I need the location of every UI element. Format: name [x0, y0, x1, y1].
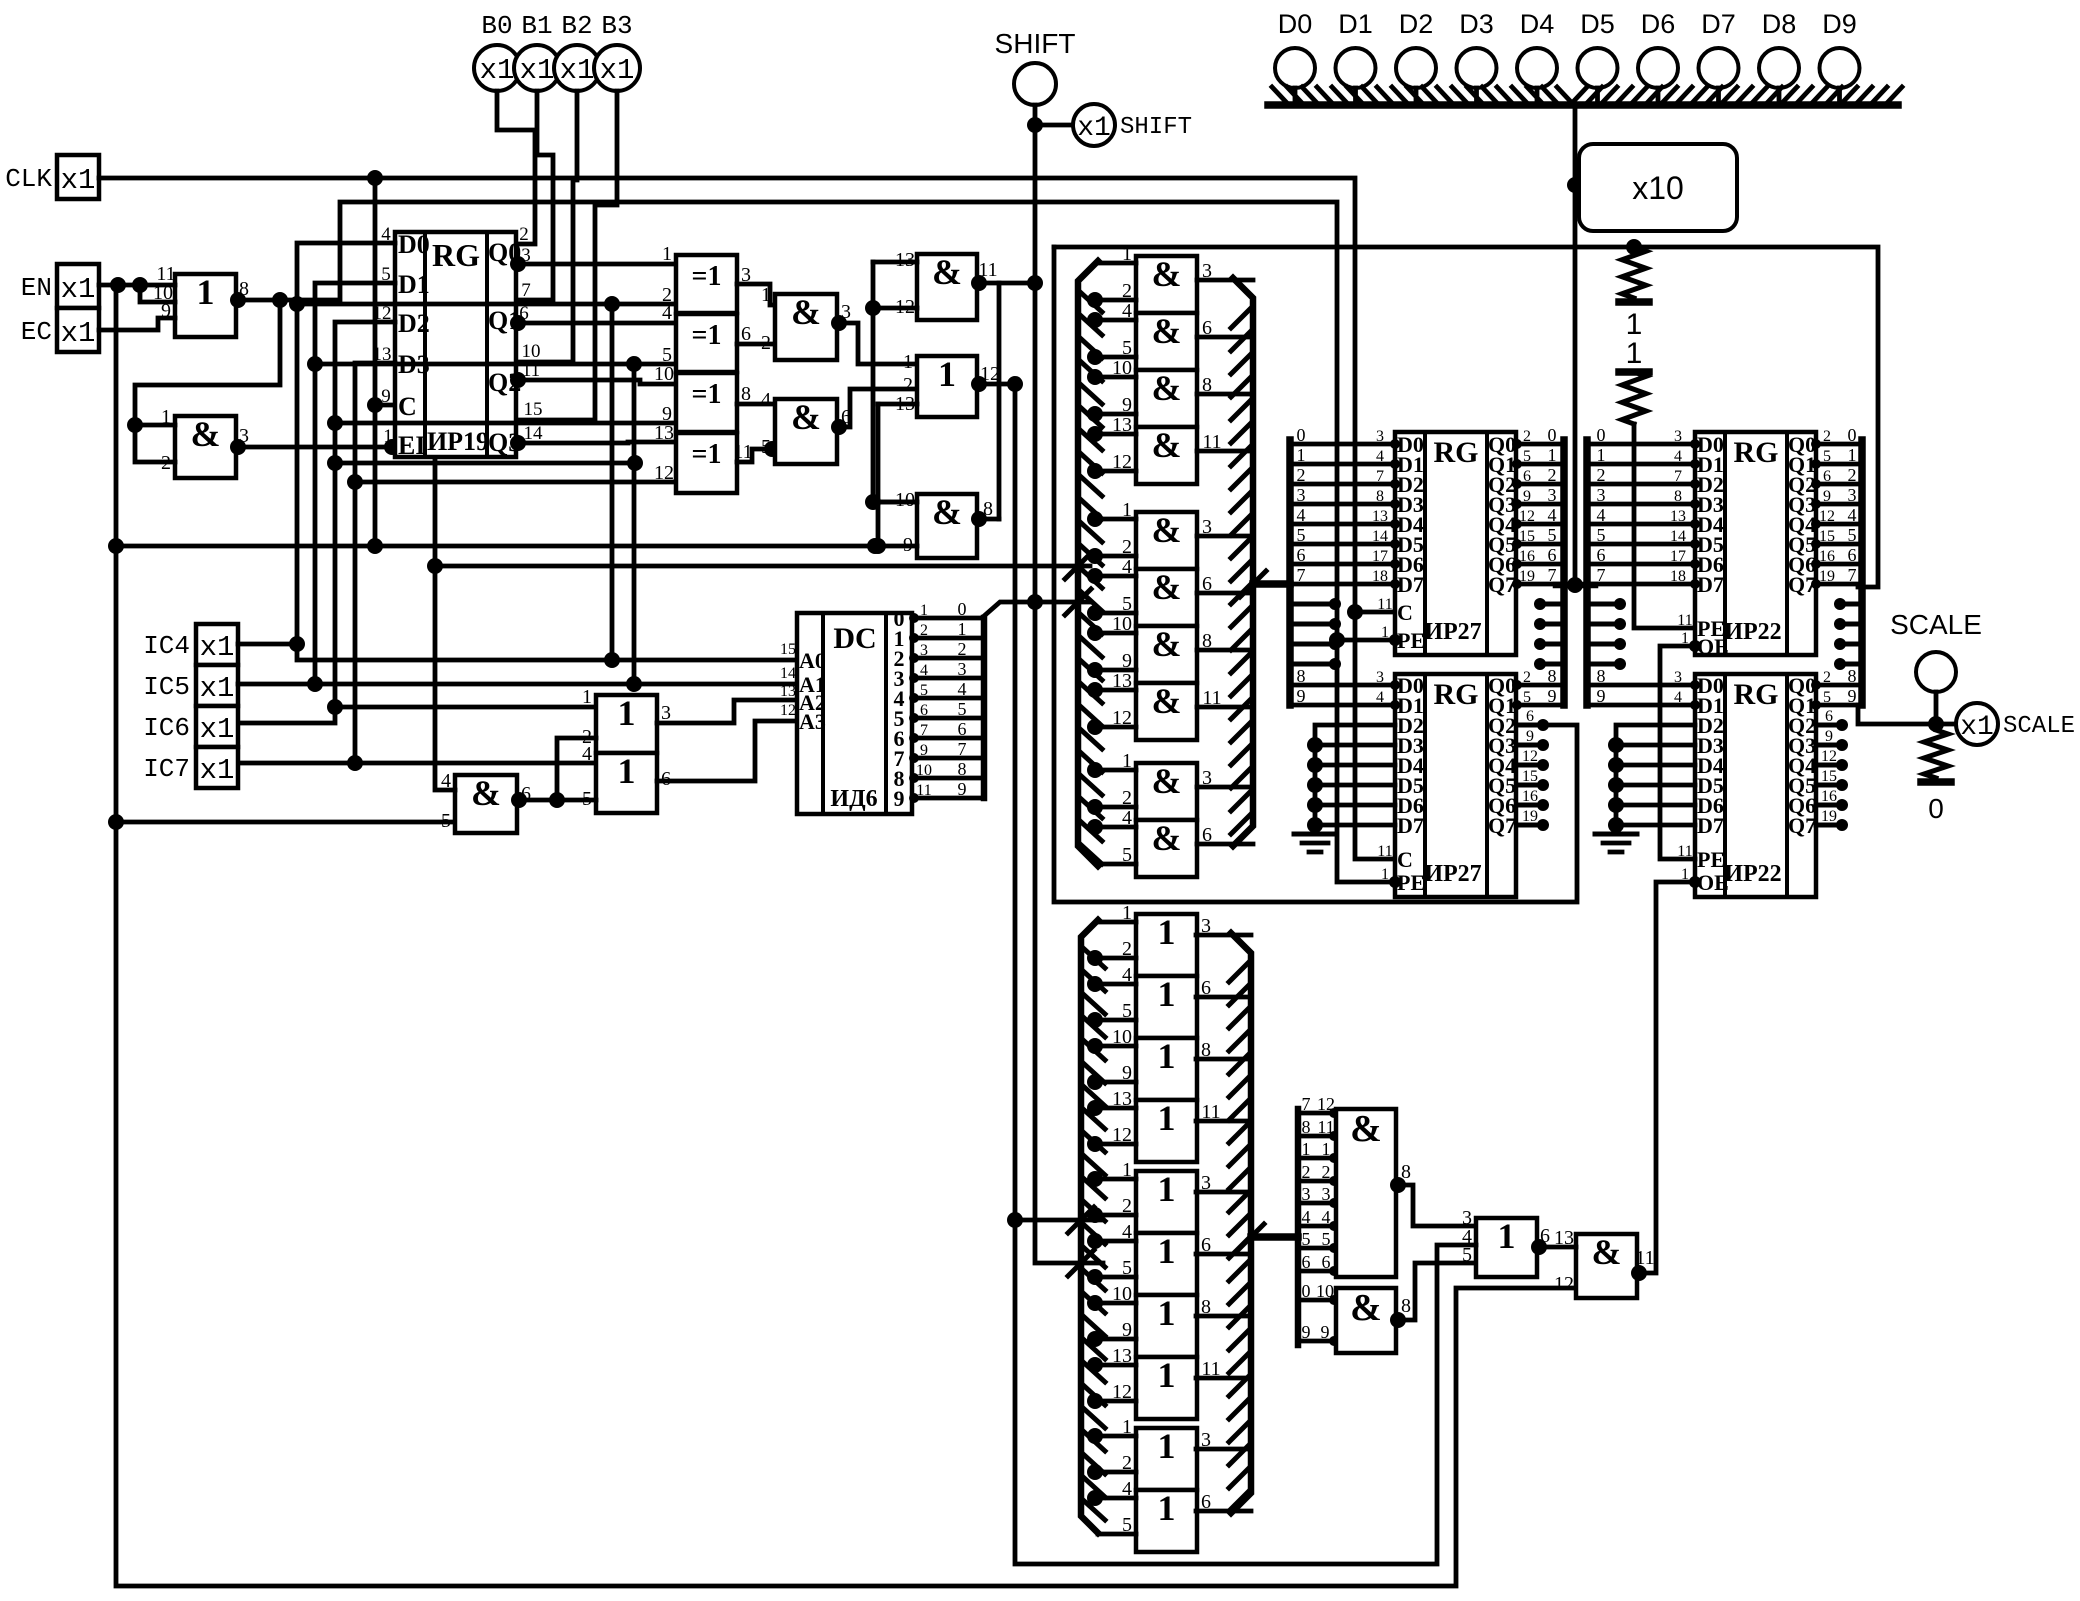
svg-text:1: 1 [582, 686, 592, 708]
wire IR22-D net 7 [1587, 582, 1695, 587]
svg-text:4: 4 [1302, 1207, 1311, 1227]
svg-text:2: 2 [1548, 465, 1557, 485]
wire x873 top to nand1 pin13 [873, 260, 917, 265]
svg-text:5: 5 [958, 699, 967, 719]
and-gate DD6 (and column) [1136, 569, 1197, 626]
svg-text:13: 13 [1372, 508, 1388, 525]
wire IR22-D net 3 [1587, 502, 1695, 507]
wire IR22-Q net 9 [1816, 703, 1862, 708]
svg-text:1: 1 [1158, 1426, 1176, 1466]
terminal IC7 [196, 747, 238, 788]
wire D1 stub [1353, 88, 1358, 101]
wire bit2 row to xor3 pin9 [335, 421, 676, 426]
wire D16 out8 to or-final pin5 [1396, 1263, 1476, 1320]
svg-text:SCALE: SCALE [1890, 609, 1982, 640]
wire and-column gate7 input 1 [1093, 631, 1136, 636]
svg-text:2: 2 [761, 332, 771, 354]
svg-text:5: 5 [1823, 689, 1831, 706]
stub IR22-D 3 [1587, 662, 1620, 667]
wire upper OE chain [1660, 646, 1695, 859]
wire or-column gate4 output [1196, 1119, 1251, 1124]
wire IR22-Q net 3 [1816, 502, 1862, 507]
wire or-column gate3 input 1 [1093, 1044, 1136, 1049]
wire IR22-Q net 1 [1816, 462, 1862, 467]
wire B3 to Q3 pin15 [516, 91, 617, 420]
wire xor1 out3 to and-A pin1 [737, 284, 775, 305]
wire and-column gate2 input 1 [1093, 318, 1136, 323]
wire vertical x999 nand2 out8 up [997, 283, 1002, 519]
svg-text:8: 8 [1597, 666, 1606, 686]
wire B2 to Q2 pin10 [516, 91, 577, 362]
svg-text:5: 5 [1297, 525, 1306, 545]
wire net bit1: D1 - xor2 pin5 - IC5 - DC A1 [315, 283, 797, 684]
svg-text:x10: x10 [1632, 170, 1684, 206]
svg-text:4: 4 [1376, 689, 1384, 706]
wire and-column gate4 output [1197, 449, 1253, 454]
and-gate D18 [1576, 1234, 1637, 1298]
svg-text:x1: x1 [200, 754, 235, 787]
svg-text:9: 9 [1302, 1322, 1311, 1342]
svg-text:3: 3 [1322, 1184, 1331, 1204]
svg-text:4: 4 [582, 743, 592, 765]
terminal IC5 [196, 665, 238, 706]
wire R2 to IR22 PE [1634, 424, 1695, 628]
svg-text:7: 7 [521, 280, 531, 301]
svg-text:&: & [791, 397, 821, 437]
wire D4 stub [1535, 88, 1540, 101]
bus crossing mark at 1078,602 [1065, 589, 1091, 615]
svg-text:x1: x1 [61, 273, 96, 306]
wire x1054 vertical down to L1 [1054, 247, 1577, 902]
wire net bit2: D2 - xor3 pin9 - IC6 - OR pin1 [238, 322, 395, 723]
wire IR22-D net 6 [1587, 562, 1695, 567]
wire IR27-D net 4 [1290, 522, 1395, 527]
svg-text:ИД6: ИД6 [830, 786, 877, 812]
svg-text:6: 6 [1322, 1252, 1331, 1272]
wire y247 net [1054, 247, 1878, 587]
nand D6.1 [917, 254, 977, 320]
xor-gate D4.2 [676, 314, 737, 372]
wire DC out 5 [912, 716, 984, 721]
wire IC4 tap [238, 642, 297, 647]
terminal B1 [514, 45, 560, 91]
svg-text:8: 8 [958, 759, 967, 779]
wire IR27-Q net 3 [1517, 502, 1564, 507]
svg-text:1: 1 [903, 351, 913, 373]
wire IR27-Q net 8 [1517, 683, 1564, 688]
svg-text:&: & [1152, 818, 1182, 858]
svg-text:1: 1 [1381, 866, 1389, 883]
svg-text:5: 5 [920, 682, 928, 699]
wire branch down to AND pin1 [135, 300, 280, 462]
wire and-column gate6 input 1 [1093, 574, 1136, 579]
svg-text:=1: =1 [692, 320, 722, 351]
svg-text:1: 1 [1297, 445, 1306, 465]
svg-text:1: 1 [1626, 337, 1643, 370]
svg-text:1: 1 [938, 354, 956, 394]
wire bit1 row to xor2 pin5 [315, 362, 676, 367]
svg-text:10: 10 [654, 363, 674, 385]
wire IR27-Q net 2 [1517, 482, 1564, 487]
svg-text:16: 16 [1819, 548, 1835, 565]
svg-text:1: 1 [761, 284, 771, 306]
wire and D15 input net 7 pin 12 [1298, 1111, 1336, 1116]
wire IR27-Q net 0 [1517, 442, 1564, 447]
wire or-column gate8 input 2 [1093, 1399, 1136, 1404]
terminal B0 [474, 45, 520, 91]
stub IR22 lower Q3 [1816, 743, 1844, 748]
wire net y546 from left rail to nand2 pin9 [116, 544, 917, 549]
wire IR27-Q net 9 [1517, 703, 1564, 708]
svg-text:4: 4 [1548, 505, 1557, 525]
wire or-column gate2 input 2 [1093, 1018, 1136, 1023]
or column left bus rail [1081, 920, 1098, 1533]
svg-text:&: & [1152, 510, 1182, 550]
wire and-column gate1 output [1197, 278, 1253, 283]
wire EN to OR pin11 [99, 283, 175, 288]
svg-text:8: 8 [1376, 488, 1384, 505]
wire bit3 row to xor4 pin12 [355, 480, 676, 485]
svg-text:15: 15 [1522, 768, 1538, 785]
svg-text:SHIFT: SHIFT [995, 28, 1076, 59]
svg-text:11: 11 [1377, 596, 1392, 613]
DC ladder rail [981, 618, 988, 798]
data bus bar [1268, 101, 1898, 109]
wire branch to or4 pin5 [557, 798, 596, 803]
wire or-bus bottom rung [1098, 1532, 1136, 1537]
stub IR27-Q 3 [1540, 662, 1564, 667]
wire IR27-Q net 6 [1517, 562, 1564, 567]
wire Q0 pin3 to xor1 pin1 [516, 262, 676, 267]
wire RG19 C pin from CLK drop [375, 403, 395, 408]
svg-text:1: 1 [1322, 1139, 1331, 1159]
stub IR22-Q 0 [1840, 602, 1862, 607]
or-gate DE8 (or column) [1136, 1357, 1197, 1419]
wire lower IR27 D7 tie [1307, 817, 1323, 833]
wire D5 stub [1595, 88, 1600, 101]
svg-text:&: & [471, 773, 501, 813]
svg-text:1: 1 [662, 243, 672, 265]
svg-text:1: 1 [920, 602, 928, 619]
svg-text:D9: D9 [1822, 9, 1857, 39]
svg-text:1: 1 [1158, 1293, 1176, 1333]
svg-text:SCALE: SCALE [2003, 713, 2075, 740]
svg-text:1: 1 [1158, 974, 1176, 1014]
stub IR22-Q 1 [1840, 622, 1862, 627]
wire and-column gate7 output [1197, 648, 1253, 653]
or column left hatch [1083, 948, 1105, 968]
svg-text:15: 15 [1519, 528, 1535, 545]
svg-text:1: 1 [1498, 1216, 1516, 1256]
svg-text:Q7: Q7 [1788, 813, 1816, 838]
wire and D15 input net 5 pin 5 [1298, 1246, 1336, 1251]
svg-text:PE: PE [1397, 870, 1425, 895]
and-gate DD4 (and column) [1136, 427, 1197, 484]
stub IR22 lower Q2 [1816, 723, 1844, 728]
svg-text:D0: D0 [1278, 9, 1313, 39]
stub IR22-Q 3 [1840, 662, 1862, 667]
wire IR27-D net 3 [1290, 502, 1395, 507]
svg-text:9: 9 [894, 786, 905, 811]
svg-text:14: 14 [1670, 528, 1686, 545]
svg-text:4: 4 [662, 302, 672, 324]
wire and D15 input net 1 pin 1 [1298, 1156, 1336, 1161]
svg-text:1: 1 [618, 751, 636, 791]
register D11 (upper IR27) [1395, 432, 1516, 655]
stub IR22-D 0 [1587, 602, 1620, 607]
svg-text:&: & [1152, 254, 1182, 294]
stub IR27-Q 1 [1540, 622, 1564, 627]
wire IR27-D net 6 [1290, 562, 1395, 567]
svg-text:9: 9 [1523, 488, 1531, 505]
wire AND out3 to RG EI [236, 445, 395, 450]
wire and-column gate1 input 2 [1093, 298, 1136, 303]
svg-text:3: 3 [1848, 485, 1857, 505]
svg-text:B0: B0 [481, 11, 512, 41]
svg-text:IC4: IC4 [143, 631, 190, 661]
svg-text:14: 14 [780, 665, 796, 682]
svg-text:9: 9 [1526, 728, 1534, 745]
svg-text:3: 3 [1376, 428, 1384, 445]
wire or-column gate6 input 1 [1093, 1239, 1136, 1244]
wire x873 bottom to nand2 pin10 [873, 500, 917, 505]
wire IR22-Q net 5 [1816, 542, 1862, 547]
svg-text:ИР22: ИР22 [1724, 619, 1781, 645]
wire and-column gate2 output [1197, 335, 1253, 340]
wire net bit0: D0 - xor1 pin2 - IC4 - DC A0 [297, 243, 797, 660]
svg-text:RG: RG [1434, 436, 1479, 469]
wire and-column gate5 input 1 [1093, 517, 1136, 522]
or-gate DE7 (or column) [1136, 1295, 1197, 1357]
stub IR22-D 1 [1587, 622, 1620, 627]
stub IR27 lower Q7 [1517, 823, 1545, 828]
svg-text:&: & [932, 492, 962, 532]
svg-text:5: 5 [1523, 689, 1531, 706]
or-gate D7.1 [917, 356, 977, 417]
svg-text:9: 9 [1823, 488, 1831, 505]
svg-text:&: & [1152, 681, 1182, 721]
wire D2 stub [1414, 88, 1419, 101]
bus ladder IR27-D [1286, 440, 1294, 705]
wire lower IR22 D4 tie [1608, 757, 1624, 773]
svg-text:4: 4 [1376, 448, 1384, 465]
svg-text:12: 12 [654, 462, 674, 484]
svg-text:4: 4 [920, 662, 928, 679]
svg-text:D1: D1 [1338, 9, 1373, 39]
wire bus drop at D5 [1573, 105, 1578, 585]
svg-text:1: 1 [1381, 624, 1389, 641]
wire net y822 to and3 pin5 [116, 820, 455, 825]
svg-text:ИР27: ИР27 [1424, 861, 1481, 887]
stub IR22-D 2 [1587, 642, 1620, 647]
svg-text:4: 4 [761, 389, 771, 411]
svg-text:OE: OE [1697, 634, 1729, 659]
svg-text:RG: RG [1734, 678, 1779, 711]
wire and-column gate3 input 2 [1093, 412, 1136, 417]
wire nand pin10 from x873 [872, 500, 917, 505]
wire and-column gate10 input 1 [1093, 825, 1136, 830]
svg-text:D3: D3 [1459, 9, 1494, 39]
svg-text:2: 2 [1297, 465, 1306, 485]
svg-text:6: 6 [1848, 545, 1857, 565]
svg-text:x1: x1 [1077, 113, 1111, 144]
wire net bit3: D3 - xor4 pin12 - IC7 - OR pin4 [238, 363, 395, 763]
wire or3 out3 to DC A2 [657, 700, 797, 723]
resistor R2 [1622, 372, 1646, 424]
svg-text:Q7: Q7 [1488, 813, 1516, 838]
wire or-column gate9 input 2 [1093, 1470, 1136, 1475]
svg-text:x1: x1 [61, 317, 96, 350]
svg-text:A0: A0 [799, 648, 826, 673]
wire D15 out8 to or-final pin3 [1396, 1185, 1476, 1226]
svg-text:B3: B3 [601, 11, 632, 41]
or-gate DE6 (or column) [1136, 1233, 1197, 1295]
svg-text:2: 2 [1823, 669, 1831, 686]
svg-text:7: 7 [920, 722, 928, 739]
svg-text:RG: RG [1434, 678, 1479, 711]
wire left border vertical + bottom border [116, 285, 1576, 1586]
or-gate DE2 (or column) [1136, 976, 1197, 1038]
wire IR22-D net 0 [1587, 442, 1695, 447]
stub IR27 lower Q2 [1517, 723, 1545, 728]
wire EN branch to OR pin10 [140, 285, 175, 302]
wire or-mid out12 to x1015 net [977, 382, 1015, 387]
svg-text:16: 16 [1821, 788, 1837, 805]
wire net drop x612 to DC A0 row [610, 304, 615, 660]
register D14 (lower IR22) [1695, 674, 1816, 897]
svg-text:0: 0 [1302, 1281, 1311, 1301]
svg-text:12: 12 [1554, 1273, 1574, 1295]
svg-text:2: 2 [920, 622, 928, 639]
and-gate DD8 (and column) [1136, 683, 1197, 740]
svg-text:4: 4 [1322, 1207, 1331, 1227]
svg-text:1: 1 [1158, 912, 1176, 952]
left bus hatch [1080, 292, 1102, 312]
svg-text:6: 6 [1825, 708, 1833, 725]
svg-text:1: 1 [197, 272, 215, 312]
wire IR27-Q net 4 [1517, 522, 1564, 527]
terminal B3 [594, 45, 640, 91]
svg-text:5: 5 [761, 436, 771, 458]
wire or-column gate5 input 1 [1093, 1177, 1136, 1182]
wire and-column gate9 input 2 [1093, 805, 1136, 810]
svg-text:19: 19 [1819, 568, 1835, 585]
bus crossing mark at 1081,1220 [1068, 1207, 1094, 1233]
right bus hatch [1231, 308, 1251, 328]
wire IR27-D net 1 [1290, 462, 1395, 467]
wire IR27-Q net 7 [1517, 582, 1564, 587]
svg-text:2: 2 [1322, 1162, 1331, 1182]
stub IR27 lower Q4 [1517, 763, 1545, 768]
wire or-column gate8 input 1 [1093, 1363, 1136, 1368]
svg-text:8: 8 [1848, 666, 1857, 686]
and column right bus rail [1233, 278, 1253, 846]
svg-text:10: 10 [1316, 1281, 1334, 1301]
or-gate DE3 (or column) [1136, 1038, 1197, 1100]
wire or4 out6 to DC A3 [657, 721, 797, 781]
wire and-column gate2 input 2 [1093, 355, 1136, 360]
stub IR27 lower Q3 [1517, 743, 1545, 748]
wire or-column gate2 input 1 [1093, 982, 1136, 987]
wire lower IR22 D3 tie [1608, 737, 1624, 753]
wire D8 stub [1777, 88, 1782, 101]
svg-text:9: 9 [1597, 686, 1606, 706]
svg-text:&: & [1152, 761, 1182, 801]
svg-text:16: 16 [1519, 548, 1535, 565]
wire lower IR27 D4 tie [1307, 757, 1323, 773]
wire DC row0 jog to shift-dc net [984, 602, 1090, 616]
svg-text:8: 8 [1302, 1117, 1311, 1137]
wire or-column gate9 output [1196, 1447, 1251, 1452]
bus hatch marks [1272, 87, 1287, 103]
wire or-column gate9 input 1 [1093, 1434, 1136, 1439]
wire D7 stub [1716, 88, 1721, 101]
wire left bus bottom rung [1098, 862, 1136, 867]
stub IR27 lower Q5 [1517, 783, 1545, 788]
wire IR22-Q net 2 [1816, 482, 1862, 487]
svg-text:ИР19: ИР19 [427, 427, 489, 456]
svg-text:11: 11 [1317, 1117, 1334, 1137]
svg-text:2: 2 [958, 639, 967, 659]
wire or-column gate3 input 2 [1093, 1080, 1136, 1085]
svg-text:PE: PE [1397, 628, 1425, 653]
wire net drop x634 to DC A1 row [632, 364, 637, 684]
terminal CLK [57, 155, 99, 199]
wire B1 to Q1 pin7 [516, 91, 553, 300]
svg-text:9: 9 [1848, 686, 1857, 706]
svg-text:&: & [791, 292, 821, 332]
svg-text:7: 7 [1548, 565, 1557, 585]
svg-text:IC7: IC7 [143, 754, 190, 784]
svg-text:C: C [1397, 847, 1413, 872]
wire branch x1015 to or column [1015, 1218, 1103, 1223]
svg-text:6: 6 [1523, 468, 1531, 485]
wire left bus top rung [1098, 261, 1136, 266]
and-gate DD2 (and column) [1136, 313, 1197, 370]
svg-text:x1: x1 [200, 713, 235, 746]
wire or-column gate4 input 2 [1093, 1142, 1136, 1147]
and-gate D5.2 [775, 399, 837, 464]
or column right hatch [1229, 962, 1249, 982]
stub IR22 lower Q7 [1816, 823, 1844, 828]
svg-text:4: 4 [1848, 505, 1857, 525]
svg-text:7: 7 [1597, 565, 1606, 585]
wire IR27-D net 8 [1290, 683, 1395, 688]
svg-text:13: 13 [654, 422, 674, 444]
svg-text:12: 12 [1519, 508, 1535, 525]
svg-text:10: 10 [522, 341, 541, 362]
wire bit2 row stub [335, 461, 635, 466]
svg-text:18: 18 [1372, 568, 1388, 585]
wire IR27-Q net 1 [1517, 462, 1564, 467]
svg-text:1: 1 [958, 619, 967, 639]
svg-text:1: 1 [1848, 445, 1857, 465]
wire and3 out6 to or4 pin5 and or3 pin2 [517, 738, 596, 800]
wire and D15 input net 3 pin 3 [1298, 1201, 1336, 1206]
or-gate DE9 (or column) [1136, 1428, 1197, 1490]
wire IR22-D net 4 [1587, 522, 1695, 527]
wire lower IR27 D5 tie [1307, 777, 1323, 793]
wire or-column gate10 output [1196, 1509, 1251, 1514]
bus ladder IR22-D [1583, 440, 1591, 705]
svg-text:12: 12 [1317, 1094, 1335, 1114]
wire lower IR27 D2-D7 tie [1315, 725, 1395, 833]
svg-text:5: 5 [1322, 1229, 1331, 1249]
svg-text:=1: =1 [692, 261, 722, 292]
svg-text:9: 9 [1321, 1322, 1330, 1342]
or-gate D8.1 [596, 695, 657, 753]
wire and D15 input net 2 pin 2 [1298, 1179, 1336, 1184]
